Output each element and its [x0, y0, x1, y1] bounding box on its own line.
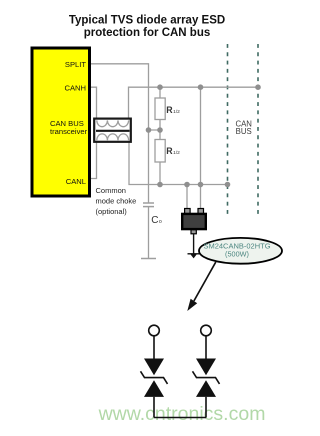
svg-text:protection for CAN bus: protection for CAN bus [84, 27, 211, 39]
svg-text:SPLIT: SPLIT [65, 60, 86, 69]
svg-text:(optional): (optional) [96, 207, 128, 216]
svg-text:(500W): (500W) [225, 249, 249, 258]
svg-text:BUS: BUS [236, 127, 252, 136]
svg-text:Common: Common [96, 186, 126, 195]
svg-text:mode choke: mode choke [96, 197, 137, 206]
svg-text:www.cntronics.com: www.cntronics.com [98, 403, 266, 425]
svg-text:Typical TVS diode array ESD: Typical TVS diode array ESD [69, 15, 225, 27]
svg-text:transceiver: transceiver [50, 127, 88, 136]
svg-text:CANH: CANH [64, 84, 86, 93]
svg-text:CANL: CANL [66, 177, 86, 186]
